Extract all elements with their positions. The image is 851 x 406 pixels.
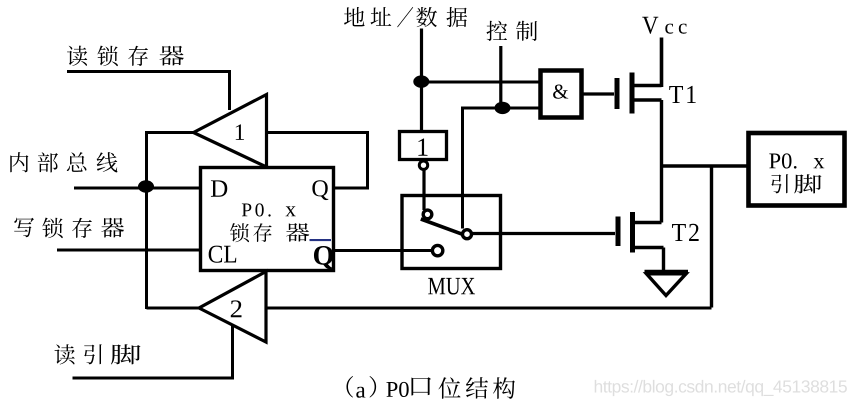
power Vcc label [642, 17, 686, 34]
label 地址/数据 (address/data) [344, 7, 467, 27]
MUX contact common (output) [463, 230, 472, 239]
label 引脚 in pin box [771, 174, 821, 193]
latch box P0.x 锁存器 [201, 168, 334, 271]
label MUX [428, 278, 475, 295]
pin label D [211, 180, 227, 196]
wire read-latch to buffer1 enable [67, 72, 230, 111]
hyperlink underline artifact (blue) [310, 239, 332, 241]
inverter bubble [419, 161, 427, 169]
caption (a)P0口位结构 [346, 376, 515, 399]
wire pin node to buffer2 input [266, 307, 712, 310]
label 内部总线 (internal bus) [10, 152, 117, 172]
transistor T2 (FET) [616, 212, 664, 253]
wire address/data to AND gate input 1 [421, 81, 540, 84]
pin label Q-bar (bold) [314, 246, 333, 269]
wire T2 source to ground [662, 248, 665, 273]
transistor T1 (FET) [615, 73, 662, 114]
wire buffer2 output to internal bus vertical [147, 307, 200, 310]
wire latch Q-bar to MUX input [334, 249, 431, 252]
wire 控制 vertical [499, 46, 502, 108]
node junction address/data [413, 75, 429, 87]
wire 内部总线 to latch D [74, 187, 200, 190]
label 写锁存器 (write latch) [14, 218, 124, 238]
label 读引脚 (read pin) [55, 344, 141, 364]
wire buffer1 output down to internal bus and buffer2 output [147, 133, 194, 310]
pin label CL [209, 246, 237, 263]
label T1 [669, 86, 695, 103]
wire node down to buffer2 input line [710, 166, 713, 308]
wire node to P0.x pin box [662, 164, 749, 167]
MUX contact B (from latch Q-bar) [432, 245, 442, 255]
value label 锁存器 inside latch [230, 223, 309, 242]
label 读锁存器 (read latch) [67, 46, 184, 66]
wire Vcc to T1 drain [660, 38, 664, 88]
wire 地址/数据 down to inverter [420, 29, 423, 132]
label 控制 (control) [487, 21, 538, 41]
MUX box [402, 196, 501, 269]
P0.x pin box [749, 133, 845, 206]
label T2 [672, 224, 699, 241]
pin label Q [312, 180, 328, 200]
wire 写锁存器 to latch CL [57, 249, 200, 252]
wire control to AND gate input 2 and MUX select [463, 108, 541, 229]
wire 读引脚 to buffer2 enable [73, 324, 233, 378]
AND gate "&" [541, 71, 582, 118]
MUX switch arm [421, 219, 463, 234]
value label P0.x inside latch [242, 203, 296, 216]
label P0.x in pin box [769, 153, 824, 168]
wire latch Q to buffer1 input [268, 133, 368, 189]
op-amp buffer 1 (read latch tri-state) [194, 95, 267, 168]
wire MUX output to T2 gate [473, 232, 616, 235]
wire AND output to T1 gate [584, 92, 615, 95]
watermark text [595, 380, 847, 396]
wire inverter to MUX input [422, 169, 425, 210]
inverter box "1" [400, 132, 447, 160]
ground symbol [645, 272, 689, 296]
op-amp buffer 2 (read pin tri-state) [199, 272, 266, 343]
wire T1 source to T2 drain (output node) [660, 100, 663, 223]
node junction control [495, 102, 511, 114]
MUX contact A (from inverter) [423, 210, 432, 219]
node junction internal bus [138, 180, 154, 192]
